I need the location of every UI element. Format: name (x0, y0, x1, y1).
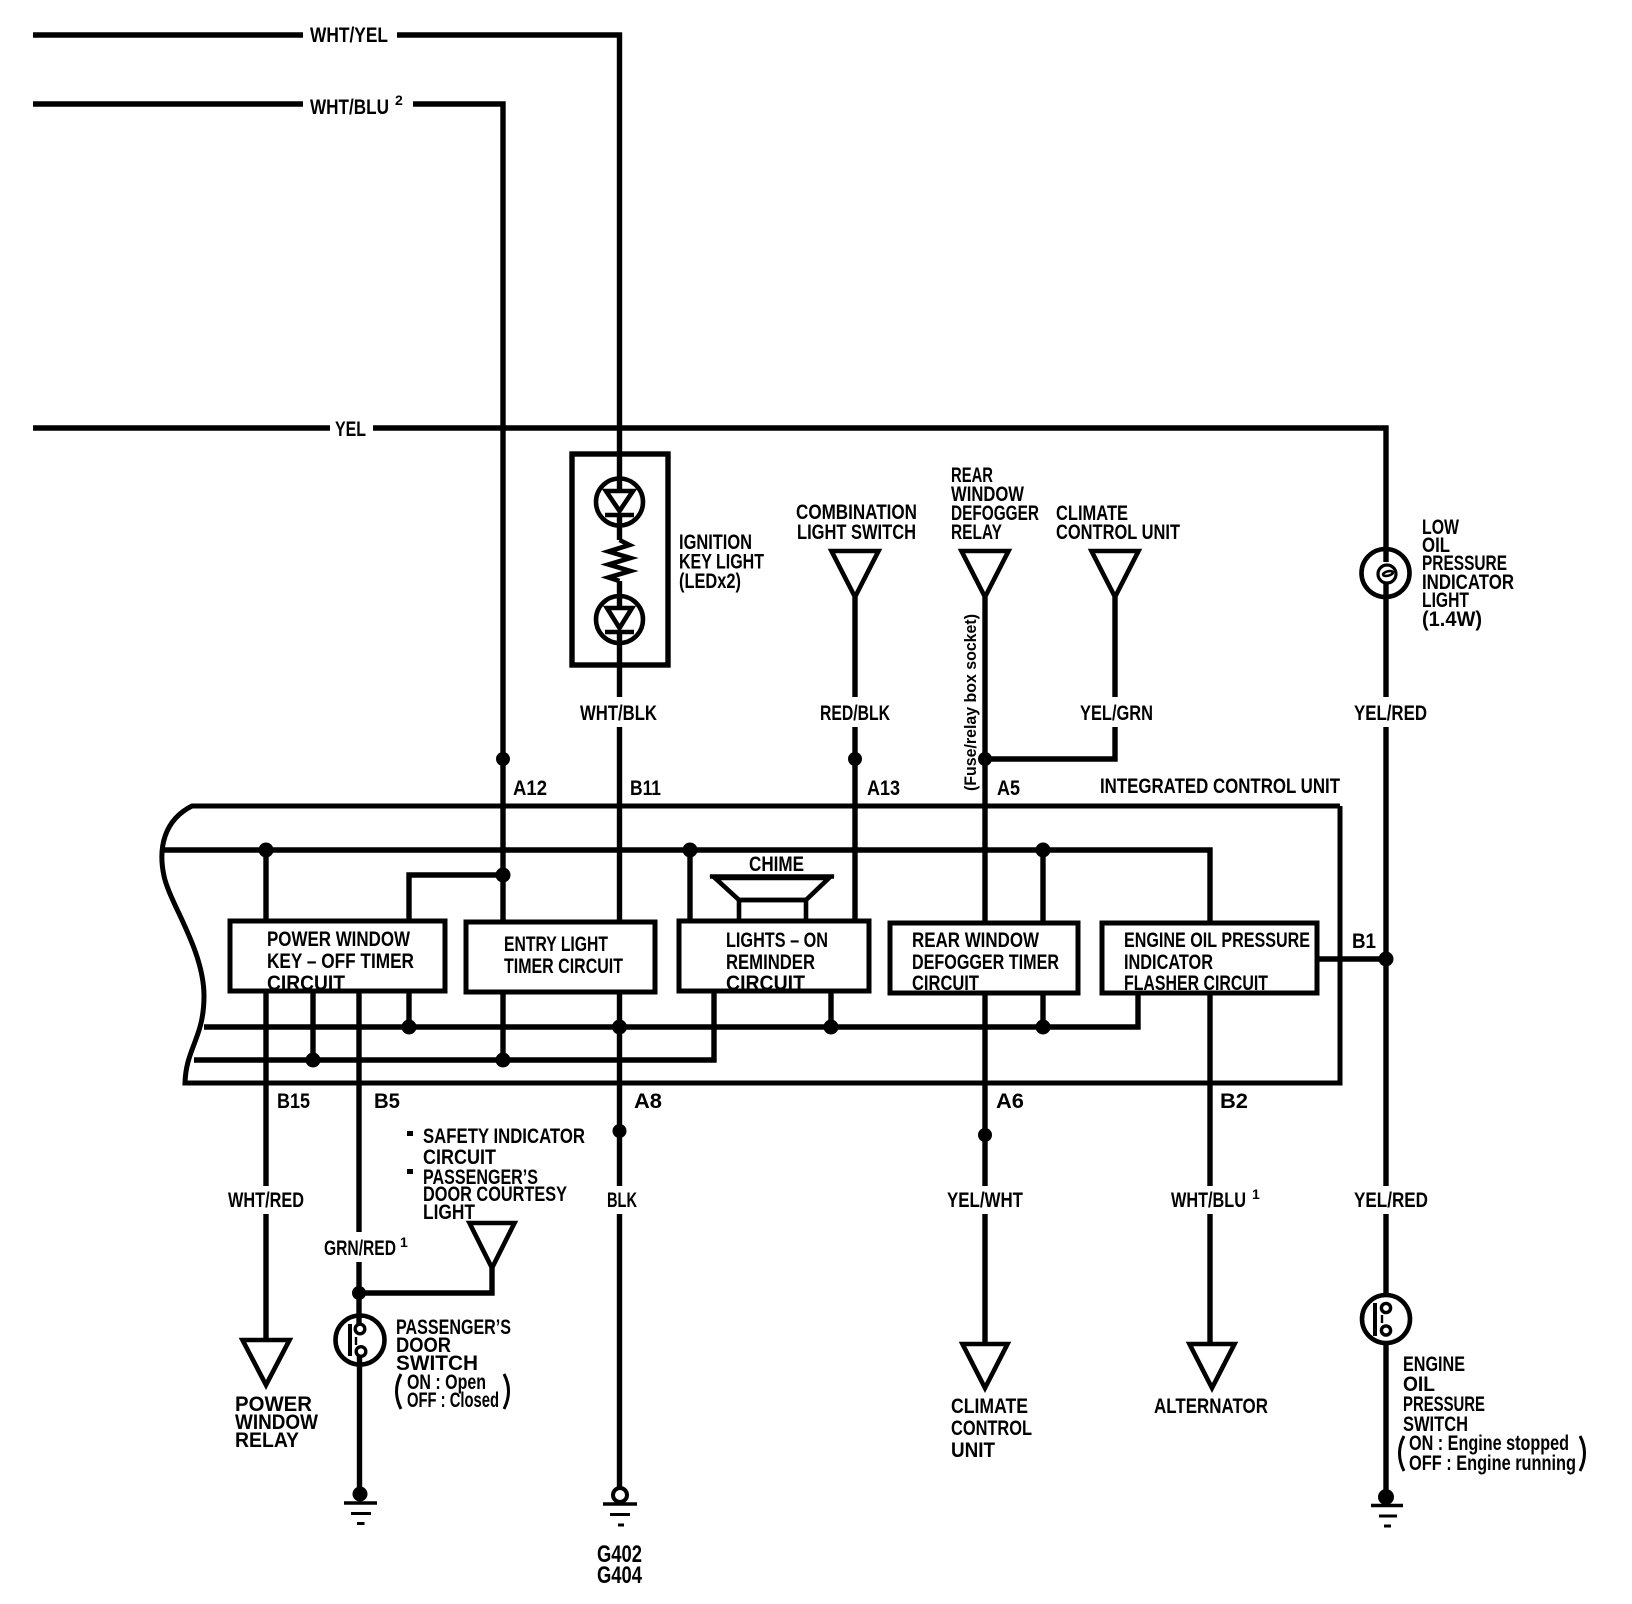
svg-text:OFF : Closed: OFF : Closed (407, 1389, 499, 1412)
junction dot bus2 x1043 (1036, 1020, 1051, 1035)
junction dot bus1 x1043 (1036, 843, 1051, 858)
svg-text:(LEDx2): (LEDx2) (679, 570, 741, 593)
wire B15 column: POWER WINDOW box bottom to WHT/RED label (263, 991, 268, 1186)
junction dot bus2 x619 (612, 1020, 627, 1035)
junction dot A12 branch y875 (496, 868, 511, 883)
box REAR WINDOW DEFOGGER TIMER CIRCUIT (890, 923, 1078, 993)
junction dot bus3 x502 (496, 1053, 511, 1068)
wire A12 column: ENTRY box bottom to bus3 junction (500, 992, 505, 1060)
wire bus1 inside ICU with elbow down to ENGINE OIL box top (164, 850, 1210, 923)
wire A13 column: RED/BLK label to LIGHTS-ON box top (852, 727, 857, 921)
svg-text:2: 2 (395, 92, 403, 108)
wire A13 column: combination light switch triangle to RED/BLK label (852, 597, 857, 697)
connector triangle CLIMATE CONTROL UNIT top (1092, 551, 1139, 597)
label GRN/RED 1 (320, 1235, 412, 1261)
wire B11 column: below WHT/BLK label to ENTRY LIGHT box top (617, 727, 622, 922)
wire B15 column: bus1 junction to POWER WINDOW box top (263, 850, 268, 921)
label YEL/RED top (1350, 698, 1431, 727)
svg-text:ALTERNATOR: ALTERNATOR (1154, 1395, 1268, 1418)
wire A5/A6 column: REAR WINDOW box bottom to YEL/WHT label (982, 993, 987, 1186)
wire B11/A8 column: ENTRY LIGHT box bottom through bus2, bus3, ICU edge to BLK label (617, 992, 622, 1186)
svg-text:REAR WINDOW: REAR WINDOW (912, 929, 1039, 952)
svg-text:INTEGRATED CONTROL UNIT: INTEGRATED CONTROL UNIT (1100, 775, 1340, 798)
label WHT/RED (224, 1187, 308, 1213)
wire stub REAR WINDOW box bottom to bus2 junction (1040, 993, 1045, 1027)
wire B15 column: WHT/RED label to POWER WINDOW RELAY triangle (263, 1214, 268, 1340)
splice dot A6 y1135 (978, 1128, 992, 1142)
svg-text:WHT/BLK: WHT/BLK (580, 702, 657, 725)
wire A6 column: YEL/WHT label to CLIMATE CONTROL UNIT triangle (982, 1214, 987, 1344)
label BLK (603, 1187, 641, 1213)
wire stub bus1 junction to REAR WINDOW box top (1040, 850, 1045, 923)
svg-text:FLASHER CIRCUIT: FLASHER CIRCUIT (1124, 972, 1268, 995)
wire stub POWER WINDOW box bottom to bus2 junction (406, 991, 411, 1027)
splice dot A8 y1131 (613, 1124, 627, 1138)
svg-text:A8: A8 (634, 1090, 662, 1113)
switch PASSENGER'S DOOR SWITCH (336, 1316, 385, 1365)
wire B5 column: POWER WINDOW box bottom to GRN/RED label (356, 991, 361, 1232)
wire A5 column: defogger relay triangle down to REAR WINDOW box top (982, 597, 987, 923)
box POWER WINDOW KEY-OFF TIMER CIRCUIT (230, 921, 445, 991)
svg-text:REMINDER: REMINDER (726, 951, 815, 974)
svg-text:RELAY: RELAY (951, 521, 1002, 544)
splice dot A12 y759 (496, 752, 510, 766)
svg-text:RED/BLK: RED/BLK (820, 702, 890, 725)
svg-text:INDICATOR: INDICATOR (1124, 951, 1213, 974)
svg-text:CHIME: CHIME (749, 853, 804, 876)
label RED/BLK (816, 698, 894, 727)
svg-text:UNIT: UNIT (951, 1439, 995, 1462)
LED D2 of ignition key light (596, 596, 643, 643)
connector triangle COMBINATION LIGHT SWITCH (832, 551, 879, 597)
wire branch from A12 column at y875 to POWER WINDOW box top (409, 875, 503, 921)
svg-text:(Fuse/relay box socket): (Fuse/relay box socket) (961, 614, 980, 791)
svg-text:YEL/RED: YEL/RED (1354, 1189, 1428, 1212)
splice dot A13 y759 (848, 752, 862, 766)
junction dot B5 courtesy light branch (352, 1286, 366, 1300)
svg-text:1: 1 (400, 1234, 408, 1250)
label YEL/WHT (943, 1187, 1027, 1213)
svg-text:WHT/RED: WHT/RED (228, 1189, 304, 1212)
junction dot bus3 x313 (306, 1053, 321, 1068)
svg-text:POWER WINDOW: POWER WINDOW (267, 928, 410, 951)
svg-text:LIGHTS – ON: LIGHTS – ON (726, 929, 828, 952)
svg-text:BLK: BLK (607, 1189, 637, 1212)
svg-text:YEL/GRN: YEL/GRN (1080, 702, 1153, 725)
lamp LOW OIL PRESSURE INDICATOR LIGHT bulb (1362, 549, 1410, 597)
svg-text:B11: B11 (630, 777, 661, 800)
svg-text:B5: B5 (374, 1090, 400, 1113)
svg-text:CONTROL: CONTROL (951, 1417, 1032, 1440)
wire WHT/YEL horizontal segment right with corner down to B11 column (397, 35, 620, 491)
svg-text:CONTROL UNIT: CONTROL UNIT (1056, 521, 1180, 544)
svg-text:ENGINE OIL PRESSURE: ENGINE OIL PRESSURE (1124, 929, 1310, 952)
svg-text:WHT/YEL: WHT/YEL (310, 24, 388, 47)
svg-text:A13: A13 (867, 777, 900, 800)
svg-text:KEY – OFF TIMER: KEY – OFF TIMER (267, 950, 414, 973)
svg-text:CIRCUIT: CIRCUIT (912, 972, 979, 995)
svg-text:DEFOGGER TIMER: DEFOGGER TIMER (912, 951, 1059, 974)
wire B2 column: ENGINE OIL box bottom to WHT/BLU label (1207, 993, 1212, 1186)
connector triangle passenger door courtesy light (470, 1223, 515, 1268)
svg-text:LIGHT: LIGHT (423, 1201, 475, 1224)
label YEL/GRN (1076, 698, 1157, 727)
svg-text:TIMER CIRCUIT: TIMER CIRCUIT (504, 955, 623, 978)
wire B5 column: passenger door switch to ground (357, 1356, 362, 1487)
wire stub bus1 junction to LIGHTS-ON box top (687, 850, 692, 921)
wire YEL/GRN branch: climate control unit triangle down and left to A5 junction (985, 597, 1115, 759)
svg-text:B1: B1 (1352, 930, 1376, 953)
switch ENGINE OIL PRESSURE SWITCH (1362, 1295, 1410, 1343)
junction dot bus2 x409 (402, 1020, 417, 1035)
svg-text:1: 1 (1252, 1186, 1260, 1202)
wire B11 column: LED box to WHT/BLK label gap (617, 515, 622, 697)
label SAFETY INDICATOR CIRCUIT bullet list (407, 1131, 413, 1136)
wire YEL horizontal segment right with corner down to indicator bulb (373, 428, 1386, 562)
svg-text:A6: A6 (996, 1090, 1024, 1113)
svg-text:(1.4W): (1.4W) (1422, 608, 1482, 631)
junction dot B1 on YEL/RED column (1379, 952, 1394, 967)
connector triangle REAR WINDOW DEFOGGER RELAY (962, 551, 1009, 597)
wire YEL/RED column: label to B1 junction and down to lower YEL/RED label (1383, 727, 1388, 1186)
wire YEL/RED column: bulb to YEL/RED label (1383, 584, 1388, 697)
junction dot bus1 x266 (259, 843, 274, 858)
resistor of ignition key light (609, 540, 631, 581)
svg-text:CIRCUIT: CIRCUIT (726, 972, 805, 995)
svg-text:SAFETY INDICATOR: SAFETY INDICATOR (423, 1125, 585, 1148)
svg-text:LIGHT SWITCH: LIGHT SWITCH (797, 521, 916, 544)
svg-text:GRN/RED: GRN/RED (324, 1237, 396, 1260)
wire B1 from ENGINE OIL box right edge to YEL/RED column (1317, 956, 1386, 961)
svg-text:YEL: YEL (335, 418, 366, 441)
junction dot bus2 x831 (824, 1020, 839, 1035)
junction dot bus1 x690 (683, 843, 698, 858)
svg-text:OFF : Engine running: OFF : Engine running (1409, 1452, 1576, 1475)
label WHT/BLK (576, 698, 662, 727)
svg-text:CLIMATE: CLIMATE (951, 1395, 1028, 1418)
svg-text:YEL/WHT: YEL/WHT (947, 1189, 1023, 1212)
label WHT/BLU 1 (1167, 1187, 1259, 1213)
svg-text:RELAY: RELAY (235, 1429, 299, 1452)
wire YEL/RED column: switch to ground (1383, 1342, 1388, 1490)
svg-text:YEL/RED: YEL/RED (1354, 702, 1427, 725)
svg-text:WHT/BLU: WHT/BLU (1171, 1189, 1246, 1212)
wire branch passenger door courtesy light to B5 junction (359, 1268, 492, 1293)
connector triangle ALTERNATOR (1190, 1344, 1235, 1388)
connector triangle POWER WINDOW RELAY (243, 1340, 290, 1385)
svg-text:WHT/BLU: WHT/BLU (310, 96, 389, 119)
wire YEL horizontal segment left (33, 425, 330, 430)
connector triangle CLIMATE CONTROL UNIT bottom (963, 1344, 1008, 1388)
wire WHT/BLU horizontal segment right with corner down (413, 104, 503, 922)
box LIGHTS-ON REMINDER CIRCUIT (679, 921, 869, 991)
box ENTRY LIGHT TIMER CIRCUIT (466, 922, 655, 992)
box IGNITION KEY LIGHT (572, 454, 668, 665)
box INTEGRATED CONTROL UNIT outline with torn left edge (162, 806, 1340, 1083)
svg-text:A12: A12 (513, 777, 547, 800)
wire YEL/RED column: label to engine oil pressure switch (1383, 1214, 1388, 1296)
svg-text:G404: G404 (597, 1562, 642, 1589)
speaker CHIME (710, 874, 834, 879)
wire bus2 inside ICU with elbow up to ENGINE OIL box bottom (204, 993, 1138, 1027)
wire WHT/YEL horizontal segment left (33, 32, 303, 37)
junction dot A5 with YEL/GRN y759 (978, 752, 992, 766)
wire A8 column: BLK label to ground G402/G404 (617, 1214, 622, 1488)
wire B5 column: GRN/RED label to passenger door switch (356, 1262, 361, 1325)
ground under B5 passenger door switch (353, 1487, 368, 1502)
svg-text:A5: A5 (997, 777, 1020, 800)
wire stub POWER WINDOW box bottom to bus3 junction (310, 991, 315, 1060)
label YEL/RED bottom (1350, 1187, 1432, 1213)
wire bus3 inside ICU with elbow up to LIGHTS-ON box bottom (194, 991, 714, 1060)
svg-text:B2: B2 (1220, 1090, 1248, 1113)
LED D1 of ignition key light (596, 479, 643, 526)
svg-text:CIRCUIT: CIRCUIT (267, 972, 345, 995)
ground G402 G404 under A8 (613, 1488, 627, 1502)
wire stub LIGHTS-ON box bottom to bus2 junction (828, 991, 833, 1027)
svg-text:B15: B15 (277, 1090, 310, 1113)
wire WHT/BLU horizontal segment left (33, 101, 303, 106)
svg-text:ENTRY LIGHT: ENTRY LIGHT (504, 933, 608, 956)
wire B2 column: WHT/BLU label to ALTERNATOR triangle (1207, 1214, 1212, 1344)
box ENGINE OIL PRESSURE INDICATOR FLASHER CIRCUIT (1102, 923, 1317, 993)
ground under ENGINE OIL PRESSURE SWITCH (1378, 1489, 1394, 1505)
